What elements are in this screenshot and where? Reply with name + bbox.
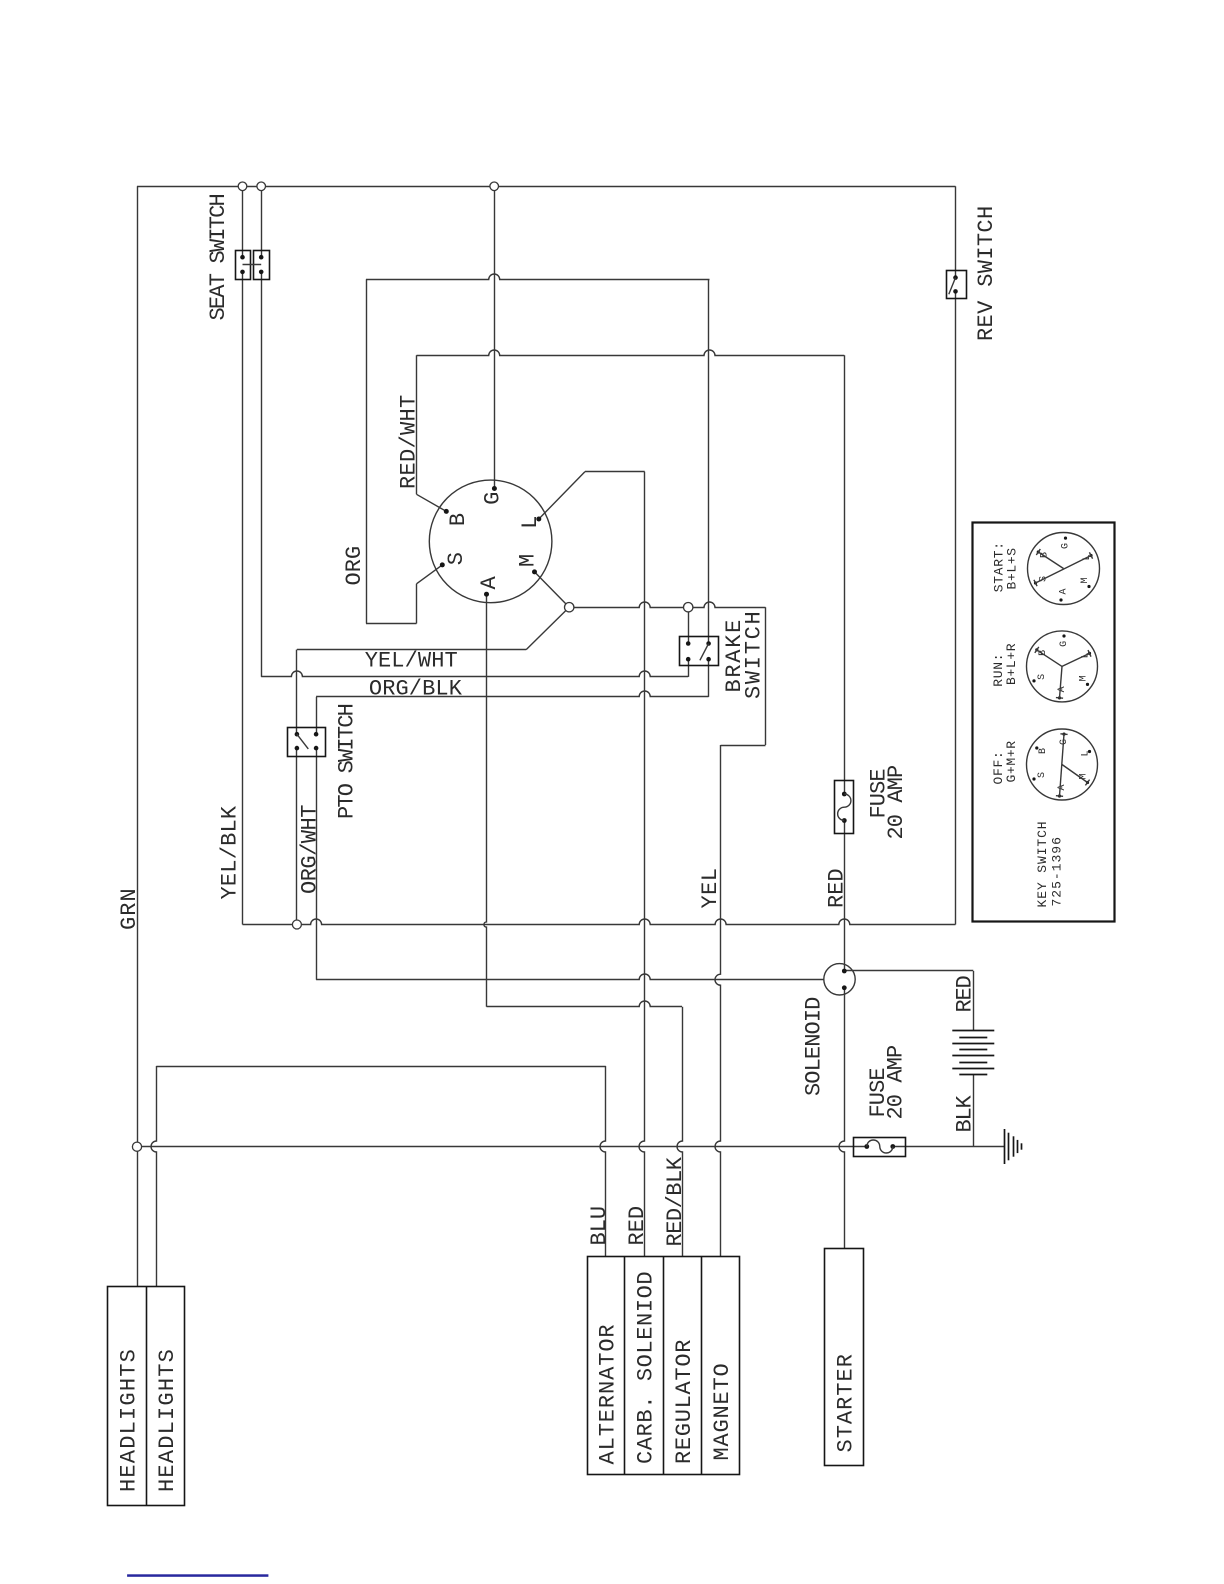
svg-text:BLK: BLK: [953, 1094, 978, 1132]
svg-text:SOLENOID: SOLENOID: [802, 997, 827, 1096]
svg-text:A: A: [1059, 588, 1070, 594]
svg-text:20 AMP: 20 AMP: [884, 1045, 909, 1120]
svg-text:CARB. SOLENIOD: CARB. SOLENIOD: [634, 1271, 659, 1464]
svg-text:BLU: BLU: [587, 1206, 612, 1246]
svg-text:B: B: [446, 513, 471, 526]
svg-text:HEADLIGHTS: HEADLIGHTS: [155, 1348, 180, 1492]
svg-text:M: M: [1079, 773, 1090, 779]
svg-text:M: M: [1079, 675, 1090, 681]
svg-text:RED: RED: [625, 1206, 650, 1246]
svg-text:YEL: YEL: [698, 868, 723, 909]
svg-text:REV SWITCH: REV SWITCH: [974, 205, 999, 341]
svg-text:ORG: ORG: [342, 546, 367, 586]
svg-text:KEY SWITCH: KEY SWITCH: [1035, 820, 1050, 907]
svg-text:S: S: [1037, 772, 1048, 778]
svg-text:L: L: [1081, 750, 1092, 756]
svg-text:RED/WHT: RED/WHT: [397, 394, 422, 489]
svg-text:YEL/WHT: YEL/WHT: [365, 649, 458, 674]
svg-text:20 AMP: 20 AMP: [884, 765, 909, 840]
svg-text:REGULATOR: REGULATOR: [672, 1339, 697, 1464]
svg-text:725-1396: 725-1396: [1050, 836, 1065, 906]
svg-text:G: G: [1059, 641, 1070, 647]
svg-text:A: A: [1057, 784, 1068, 790]
svg-text:M: M: [1080, 577, 1091, 583]
svg-text:MAGNETO: MAGNETO: [710, 1362, 735, 1460]
svg-text:G: G: [1061, 543, 1072, 549]
svg-text:STARTER: STARTER: [834, 1353, 859, 1452]
svg-text:HEADLIGHTS: HEADLIGHTS: [117, 1348, 142, 1492]
svg-text:B+L+S: B+L+S: [1005, 547, 1020, 589]
svg-text:A: A: [477, 576, 502, 590]
svg-text:ORG/BLK: ORG/BLK: [369, 677, 463, 702]
svg-text:ALTERNATOR: ALTERNATOR: [596, 1323, 621, 1464]
svg-text:G: G: [480, 492, 505, 505]
svg-text:L: L: [518, 516, 543, 529]
svg-text:GRN: GRN: [117, 887, 142, 930]
svg-text:S: S: [444, 552, 469, 565]
svg-text:SEAT SWITCH: SEAT SWITCH: [206, 194, 231, 320]
svg-text:SWITCH: SWITCH: [742, 610, 767, 699]
svg-text:YEL/BLK: YEL/BLK: [218, 805, 243, 899]
svg-text:PTO SWITCH: PTO SWITCH: [335, 704, 360, 819]
svg-text:B+L+R: B+L+R: [1004, 643, 1019, 685]
svg-text:ORG/WHT: ORG/WHT: [298, 805, 323, 894]
svg-text:RED: RED: [825, 868, 850, 908]
svg-text:G: G: [1059, 739, 1070, 745]
svg-text:S: S: [1037, 674, 1048, 680]
svg-text:B: B: [1038, 748, 1049, 754]
svg-text:G+M+R: G+M+R: [1004, 740, 1019, 782]
svg-text:RED/BLK: RED/BLK: [663, 1156, 688, 1246]
svg-text:A: A: [1057, 686, 1068, 692]
svg-text:RED: RED: [953, 975, 978, 1012]
svg-text:M: M: [515, 554, 540, 567]
